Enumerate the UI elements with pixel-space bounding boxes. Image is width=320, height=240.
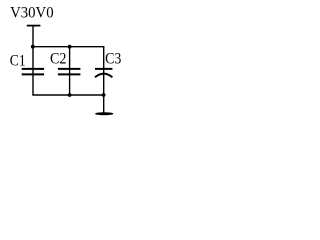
svg-text:C3: C3 [105,51,121,68]
svg-text:C2: C2 [50,51,67,68]
svg-text:C1: C1 [10,52,26,69]
svg-text:V30V0: V30V0 [10,5,54,22]
